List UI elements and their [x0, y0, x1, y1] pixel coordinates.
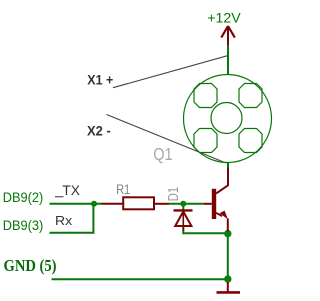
svg-text:+12V: +12V: [207, 9, 241, 25]
svg-text:Q1: Q1: [153, 144, 173, 164]
svg-text:TX: TX: [62, 182, 80, 198]
svg-text:DB9(2): DB9(2): [3, 190, 44, 205]
svg-text:X1 +: X1 +: [87, 73, 113, 88]
svg-text:X2 -: X2 -: [87, 124, 111, 139]
svg-text:Rx: Rx: [55, 213, 73, 228]
svg-text:R1: R1: [116, 182, 130, 197]
svg-text:D1: D1: [165, 187, 182, 202]
svg-text:GND (5): GND (5): [4, 256, 57, 275]
svg-text:DB9(3): DB9(3): [3, 218, 44, 233]
